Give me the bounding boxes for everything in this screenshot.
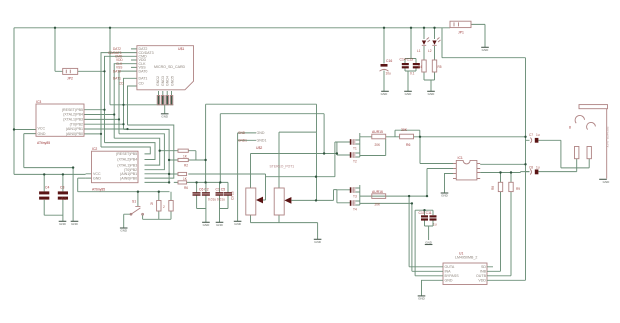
svg-text:GND: GND bbox=[71, 222, 79, 226]
svg-text:GND: GND bbox=[314, 240, 322, 244]
svg-text:(XTAL1)PB3: (XTAL1)PB3 bbox=[63, 118, 83, 122]
svg-text:(RESET)PB5: (RESET)PB5 bbox=[116, 152, 137, 156]
svg-text:0.1: 0.1 bbox=[410, 72, 415, 76]
svg-text:GND1: GND1 bbox=[238, 139, 247, 143]
svg-text:C7: C7 bbox=[529, 133, 533, 137]
svg-text:1u: 1u bbox=[433, 223, 437, 227]
svg-text:AUR16: AUR16 bbox=[372, 190, 383, 194]
svg-text:GND5: GND5 bbox=[170, 76, 174, 86]
svg-text:ATtiny85: ATtiny85 bbox=[37, 141, 50, 145]
svg-text:GND: GND bbox=[216, 223, 224, 227]
svg-text:GND: GND bbox=[238, 131, 246, 135]
svg-text:GND: GND bbox=[38, 132, 46, 136]
svg-text:SD: SD bbox=[481, 265, 486, 269]
svg-text:CD: CD bbox=[139, 81, 145, 85]
svg-text:S1: S1 bbox=[132, 200, 136, 204]
svg-text:C16: C16 bbox=[386, 59, 392, 63]
svg-text:GND: GND bbox=[161, 115, 169, 119]
svg-text:U$2: U$2 bbox=[256, 146, 262, 150]
svg-text:GND: GND bbox=[482, 48, 490, 52]
svg-text:DAT1: DAT1 bbox=[113, 77, 121, 81]
svg-text:GND: GND bbox=[381, 92, 389, 96]
svg-text:MICRO_SD_CARD: MICRO_SD_CARD bbox=[154, 65, 186, 69]
svg-text:GND: GND bbox=[405, 92, 413, 96]
svg-text:(XTAL2)PB4: (XTAL2)PB4 bbox=[117, 158, 137, 162]
svg-text:(XTAL1)PB3: (XTAL1)PB3 bbox=[117, 163, 137, 167]
svg-text:(AIN1)PB1: (AIN1)PB1 bbox=[66, 127, 83, 131]
svg-text:0.01u 0.01u: 0.01u 0.01u bbox=[208, 198, 225, 202]
svg-text:T4: T4 bbox=[353, 208, 357, 212]
svg-text:GND: GND bbox=[203, 223, 211, 227]
svg-text:IC3: IC3 bbox=[36, 100, 41, 104]
svg-text:C10 C11: C10 C11 bbox=[419, 211, 432, 215]
svg-text:R9: R9 bbox=[516, 187, 520, 191]
svg-text:JP2: JP2 bbox=[67, 77, 73, 81]
svg-text:C14 C13: C14 C13 bbox=[400, 58, 413, 62]
svg-text:STEREO_POT1: STEREO_POT1 bbox=[270, 165, 295, 169]
svg-text:CD: CD bbox=[119, 81, 124, 85]
svg-text:GND: GND bbox=[425, 241, 433, 245]
svg-text:R5: R5 bbox=[438, 65, 442, 69]
svg-text:BYPASS: BYPASS bbox=[445, 274, 460, 278]
svg-text:20K: 20K bbox=[375, 143, 382, 147]
svg-text:(T0)PB2: (T0)PB2 bbox=[70, 122, 83, 126]
svg-text:U$1: U$1 bbox=[178, 47, 184, 51]
svg-text:VDD: VDD bbox=[478, 279, 486, 283]
svg-text:GND: GND bbox=[418, 297, 426, 301]
svg-text:C6 C2: C6 C2 bbox=[199, 188, 209, 192]
svg-text:OUTB: OUTB bbox=[476, 274, 487, 278]
svg-text:GND: GND bbox=[234, 222, 242, 226]
svg-text:JP1: JP1 bbox=[458, 31, 464, 35]
svg-text:(AIN0)PB0: (AIN0)PB0 bbox=[66, 132, 83, 136]
svg-text:L2: L2 bbox=[428, 49, 432, 53]
svg-text:8: 8 bbox=[569, 126, 571, 130]
svg-text:INB: INB bbox=[480, 270, 487, 274]
svg-text:30K: 30K bbox=[401, 128, 408, 132]
svg-text:C3: C3 bbox=[60, 186, 64, 190]
svg-text:C4: C4 bbox=[45, 186, 49, 190]
svg-text:R2: R2 bbox=[184, 163, 188, 167]
svg-text:GND: GND bbox=[603, 180, 611, 184]
svg-text:C9 1u: C9 1u bbox=[231, 191, 235, 200]
svg-text:C8: C8 bbox=[529, 165, 533, 169]
svg-text:R8: R8 bbox=[491, 186, 495, 190]
svg-text:T2: T2 bbox=[353, 160, 357, 164]
svg-text:1u: 1u bbox=[536, 133, 540, 137]
svg-text:GND2: GND2 bbox=[156, 76, 160, 86]
svg-text:GND: GND bbox=[441, 194, 449, 198]
svg-text:DAT0: DAT0 bbox=[139, 69, 148, 73]
svg-text:ATtiny85: ATtiny85 bbox=[92, 187, 105, 191]
svg-text:(AIN0)PB0: (AIN0)PB0 bbox=[120, 176, 137, 180]
svg-text:(XTAL2)PB4: (XTAL2)PB4 bbox=[63, 113, 83, 117]
svg-text:GND: GND bbox=[445, 279, 453, 283]
svg-text:IC2: IC2 bbox=[92, 147, 97, 151]
svg-text:SPEAKER_JACK: SPEAKER_JACK bbox=[606, 127, 610, 148]
svg-text:GND1: GND1 bbox=[257, 139, 267, 143]
svg-text:GND3: GND3 bbox=[161, 76, 165, 86]
svg-text:2: 2 bbox=[163, 205, 165, 209]
svg-text:GND: GND bbox=[59, 222, 67, 226]
svg-text:R6: R6 bbox=[184, 186, 188, 190]
svg-text:(RESET)PB5: (RESET)PB5 bbox=[62, 108, 83, 112]
svg-text:VCC: VCC bbox=[38, 127, 46, 131]
svg-text:10u: 10u bbox=[386, 72, 392, 76]
svg-text:IC1: IC1 bbox=[458, 156, 463, 160]
svg-text:INA: INA bbox=[445, 270, 452, 274]
svg-text:0.1: 0.1 bbox=[62, 197, 67, 201]
svg-text:GND: GND bbox=[120, 229, 128, 233]
svg-text:C1 C5: C1 C5 bbox=[216, 188, 226, 192]
svg-text:DAT1: DAT1 bbox=[139, 77, 148, 81]
svg-text:GND: GND bbox=[257, 131, 265, 135]
svg-text:LM4950MB_2: LM4950MB_2 bbox=[455, 256, 477, 260]
svg-text:T1: T1 bbox=[353, 147, 357, 151]
svg-text:20K: 20K bbox=[375, 202, 382, 206]
svg-text:GND4: GND4 bbox=[166, 76, 170, 86]
svg-text:DAT0: DAT0 bbox=[113, 69, 121, 73]
svg-text:L1: L1 bbox=[417, 49, 421, 53]
svg-text:OUTA: OUTA bbox=[445, 265, 455, 269]
svg-text:1u: 1u bbox=[536, 165, 540, 169]
svg-text:R6: R6 bbox=[406, 143, 410, 147]
svg-text:AUR15: AUR15 bbox=[372, 130, 383, 134]
svg-text:GND: GND bbox=[93, 176, 101, 180]
svg-text:R4: R4 bbox=[418, 65, 422, 69]
svg-text:T3: T3 bbox=[353, 195, 357, 199]
svg-text:GND: GND bbox=[428, 92, 436, 96]
